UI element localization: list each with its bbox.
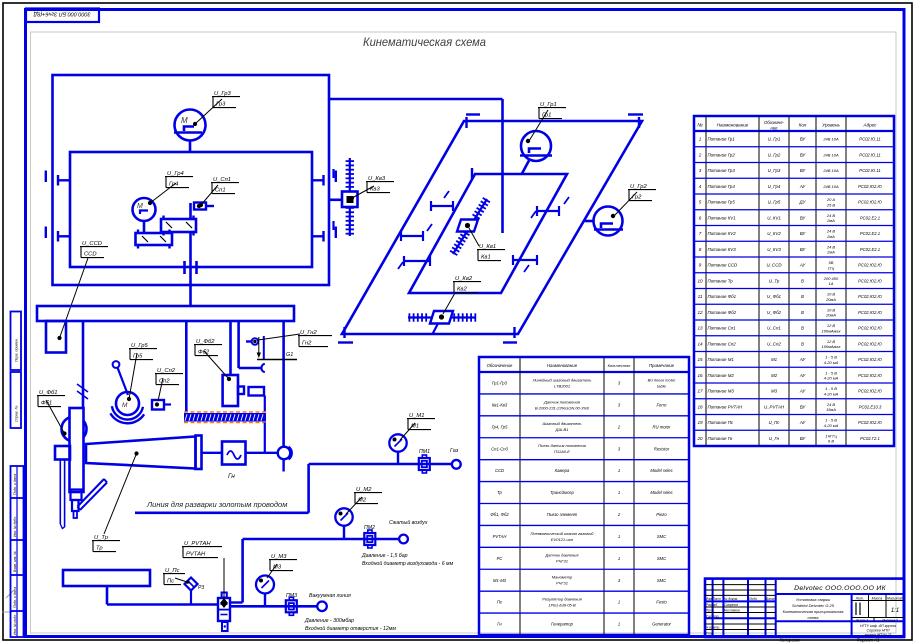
svg-text:РС02.Ю2.Ю: РС02.Ю2.Ю: [858, 263, 882, 268]
svg-text:ние: ние: [771, 126, 779, 131]
leadscrew Kv3: [349, 158, 351, 236]
sensor Sp2: [152, 400, 164, 410]
svg-text:Кинематическая схема: Кинематическая схема: [363, 35, 486, 49]
svg-text:В: В: [801, 326, 804, 331]
svg-text:19: 19: [697, 420, 703, 425]
gas inlet circle: [452, 460, 461, 469]
svg-text:24 В: 24 В: [826, 229, 836, 234]
svg-text:Копировал: Копировал: [780, 638, 801, 643]
svg-text:Изм Лист: Изм Лист: [706, 597, 721, 601]
svg-text:РС02.Ю2.Ю: РС02.Ю2.Ю: [858, 278, 882, 283]
leader to Gr3: [195, 99, 222, 124]
svg-text:SМС: SМС: [657, 578, 667, 583]
svg-text:24В 10А: 24В 10А: [822, 152, 839, 157]
svg-text:Питание Тр: Питание Тр: [708, 278, 734, 283]
svg-text:РС02.Ю2.Ю: РС02.Ю2.Ю: [858, 310, 882, 315]
svg-text:В: В: [801, 278, 804, 283]
svg-text:ПМ2: ПМ2: [364, 525, 375, 531]
svg-text:12 В: 12 В: [827, 323, 836, 328]
svg-text:Пьезо элемент: Пьезо элемент: [547, 512, 578, 517]
gauge M3: [264, 594, 266, 607]
gear block upper: [161, 219, 196, 232]
svg-text:Resistor: Resistor: [654, 446, 670, 451]
svg-text:1 - 5 В: 1 - 5 В: [825, 418, 837, 423]
svg-text:Листов 1: Листов 1: [881, 619, 898, 623]
top-left document number stamp: [26, 9, 99, 23]
svg-text:table: table: [657, 383, 666, 388]
svg-text:Количество: Количество: [608, 363, 632, 368]
column line 5: [282, 321, 285, 447]
svg-text:18: 18: [697, 404, 703, 409]
rail dashes Kv3: [332, 169, 334, 178]
column line 2: [185, 321, 188, 413]
svg-text:Питание М1: Питание М1: [708, 357, 735, 362]
column line 1: [82, 321, 85, 408]
svg-text:РС02.Е2.1: РС02.Е2.1: [860, 247, 880, 252]
svg-text:Генератор: Генератор: [551, 622, 573, 627]
bearing left upper: [45, 171, 47, 183]
leader to Kv3: [352, 186, 374, 198]
svg-text:Питание Гр4: Питание Гр4: [708, 184, 736, 189]
svg-text:6 В: 6 В: [828, 439, 834, 444]
bearing right lower: [335, 227, 337, 239]
svg-text:Schdelot Delvotec G.25: Schdelot Delvotec G.25: [792, 603, 835, 608]
svg-text:Установка сварки: Установка сварки: [796, 597, 831, 602]
svg-text:Festo: Festo: [656, 600, 667, 605]
wire G1: [257, 359, 297, 361]
motor Gr2: [594, 207, 623, 236]
svg-text:U_ССD: U_ССD: [766, 263, 782, 268]
capstan circle: [62, 417, 87, 442]
leadscrew Kv1 diagonal: [453, 199, 487, 254]
brake arc Gr5: [112, 406, 143, 419]
svg-text:РС02.Ю2.Ю: РС02.Ю2.Ю: [858, 200, 882, 205]
link to motor Gr5: [118, 368, 129, 396]
svg-text:РС02.Ю2.Ю: РС02.Ю2.Ю: [858, 326, 882, 331]
svg-text:Т.контр.: Т.контр.: [706, 615, 720, 619]
svg-text:ПМ1: ПМ1: [419, 449, 430, 455]
svg-text:1ЧГГц: 1ЧГГц: [825, 433, 837, 438]
svg-text:7: 7: [699, 231, 702, 236]
svg-text:Формат А1: Формат А1: [857, 638, 880, 643]
svg-text:25 В: 25 В: [826, 202, 836, 207]
svg-text:24 В: 24 В: [826, 244, 836, 249]
svg-text:Питание Гр2: Питание Гр2: [708, 152, 736, 157]
svg-text:Утв.: Утв.: [706, 632, 714, 636]
svg-text:Питание КV1: Питание КV1: [708, 215, 737, 220]
svg-text:1: 1: [618, 622, 620, 627]
svg-text:Питание Гр3: Питание Гр3: [708, 168, 736, 173]
svg-text:BU linear motor: BU linear motor: [648, 377, 676, 382]
svg-text:U_Гр5: U_Гр5: [768, 200, 781, 205]
svg-text:U_Сп2: U_Сп2: [767, 341, 781, 346]
svg-text:1 - 5 В: 1 - 5 В: [825, 386, 837, 391]
ultrasonic generator Gn: [222, 442, 246, 465]
svg-text:М3: М3: [771, 389, 778, 394]
svg-text:РС02.Ю2.Ю: РС02.Ю2.Ю: [858, 294, 882, 299]
line to M3: [230, 605, 317, 608]
svg-text:Питание Пс: Питание Пс: [708, 420, 734, 425]
svg-text:Датчик положения: Датчик положения: [543, 399, 581, 404]
svg-text:16: 16: [697, 373, 703, 378]
svg-text:Ferro: Ferro: [656, 402, 667, 407]
svg-text:Питание М2: Питание М2: [708, 373, 735, 378]
svg-text:U_Гр3: U_Гр3: [768, 168, 781, 173]
svg-text:Сергеев НПП: Сергеев НПП: [867, 629, 890, 633]
svg-text:М1-М3: М1-М3: [493, 578, 507, 583]
svg-text:1А: 1А: [829, 281, 834, 286]
shaft vertical: [189, 203, 192, 219]
svg-text:LТВ2001: LТВ2001: [554, 383, 570, 388]
wire box1 to stage top: [329, 98, 503, 101]
svg-text:РЧГ31: РЧГ31: [556, 559, 568, 564]
nut Kv3: [342, 192, 358, 208]
svg-text:Подп. и дата: Подп. и дата: [13, 474, 17, 495]
svg-text:8: 8: [699, 247, 702, 252]
pressure sensor Ps: [185, 578, 198, 591]
svg-text:Питание М3: Питание М3: [708, 389, 735, 394]
svg-text:20мА: 20мА: [825, 313, 836, 318]
svg-text:М1: М1: [771, 357, 778, 362]
transducer block Fb2: [223, 375, 238, 406]
svg-text:U_Фб1: U_Фб1: [767, 294, 782, 299]
svg-text:Уровень: Уровень: [822, 123, 840, 128]
svg-text:ДУ: ДУ: [799, 200, 807, 205]
svg-text:Питание ССD: Питание ССD: [708, 263, 739, 268]
bond head column: [70, 408, 84, 492]
svg-text:Масса: Масса: [872, 596, 883, 600]
svg-text:М: М: [122, 402, 128, 409]
line to M2: [243, 538, 399, 541]
svg-text:Пс: Пс: [167, 579, 174, 585]
svg-text:5: 5: [699, 200, 702, 205]
svg-text:Питание Сп2: Питание Сп2: [708, 341, 737, 346]
svg-text:U_Гр4: U_Гр4: [768, 184, 781, 189]
svg-text:Кол: Кол: [799, 123, 807, 128]
svg-text:Пневматический клапан газовый: Пневматический клапан газовый: [531, 531, 595, 536]
svg-text:1: 1: [618, 468, 620, 473]
svg-text:Гн: Гн: [228, 473, 235, 480]
svg-text:1: 1: [618, 556, 620, 561]
svg-text:РС: РС: [497, 556, 504, 561]
leader to CCD camera: [60, 258, 89, 338]
svg-text:М2: М2: [771, 373, 778, 378]
svg-text:U_Гр2: U_Гр2: [768, 152, 781, 157]
svg-text:П11А0-Е: П11А0-Е: [554, 449, 570, 454]
svg-text:РЧГ31: РЧГ31: [556, 581, 568, 586]
svg-text:Адрес: Адрес: [863, 123, 878, 128]
svg-text:М: М: [181, 116, 188, 125]
svg-text:24 В: 24 В: [826, 213, 836, 218]
lever arm: [80, 483, 107, 511]
CCD camera: [46, 321, 66, 353]
svg-text:Разраб.: Разраб.: [706, 603, 718, 607]
column line 3: [229, 321, 232, 375]
svg-text:Наименование: Наименование: [717, 123, 749, 128]
head lower blocks: [71, 490, 82, 501]
block right of Fb2: [249, 387, 265, 396]
svg-text:Давление - 300мбар: Давление - 300мбар: [304, 618, 354, 624]
svg-text:Тр: Тр: [96, 546, 103, 552]
svg-text:Шаговый двигатель: Шаговый двигатель: [543, 421, 582, 426]
svg-text:Питание Гр1: Питание Гр1: [708, 137, 736, 142]
svg-text:ЕV0121-шт: ЕV0121-шт: [551, 537, 574, 542]
slider rung D: [537, 210, 559, 212]
fold mark bottom left: [6, 590, 14, 598]
svg-text:4-20 мА: 4-20 мА: [824, 360, 839, 365]
svg-text:РС02.Ю2.Ю: РС02.Ю2.Ю: [858, 420, 882, 425]
slider rung B: [401, 235, 423, 237]
svg-text:17: 17: [697, 389, 703, 394]
svg-text:Кинематическая принципиальная: Кинематическая принципиальная: [783, 610, 844, 614]
svg-text:U_Гн: U_Гн: [769, 436, 780, 441]
svg-text:РС02.Ю.11: РС02.Ю.11: [859, 152, 880, 157]
svg-text:2мА: 2мА: [826, 218, 835, 223]
svg-text:Сп2: Сп2: [159, 379, 170, 385]
wire box1 to Kv3 screw: [329, 199, 342, 202]
EFO spark unit Gn: [246, 340, 252, 342]
svg-text:11: 11: [698, 294, 703, 299]
bearing right upper: [335, 171, 337, 183]
svg-text:Наименование: Наименование: [547, 363, 578, 368]
svg-text:Model selec: Model selec: [650, 468, 673, 473]
svg-text:Линия для разварки золотым про: Линия для разварки золотым проводом: [146, 500, 287, 509]
svg-text:Питание Гн: Питание Гн: [708, 436, 733, 441]
svg-text:Гн: Гн: [497, 622, 502, 627]
svg-text:Гр1-Гр3: Гр1-Гр3: [492, 381, 508, 386]
svg-text:12 В: 12 В: [827, 339, 836, 344]
svg-text:РС02.Ю2.Ю: РС02.Ю2.Ю: [858, 357, 882, 362]
svg-text:24 В: 24 В: [826, 402, 836, 407]
svg-text:Перв. примен.: Перв. примен.: [15, 338, 19, 362]
parts table: [479, 357, 689, 635]
svg-text:4-20 мА: 4-20 мА: [824, 376, 839, 381]
svg-text:Кв2: Кв2: [457, 287, 467, 293]
title block: [705, 579, 904, 637]
lit massa masshtab: [852, 600, 904, 602]
svg-text:Питание КV2: Питание КV2: [708, 231, 737, 236]
svg-text:15: 15: [697, 357, 703, 362]
svg-text:20: 20: [696, 436, 703, 441]
wire horn to generator: [202, 452, 223, 454]
svg-text:Чистяков: Чистяков: [724, 609, 740, 613]
svg-text:Трансдюсер: Трансдюсер: [550, 490, 574, 495]
svg-text:Piezo: Piezo: [656, 512, 667, 517]
svg-text:2: 2: [698, 152, 702, 157]
svg-text:G1: G1: [286, 352, 293, 358]
title block doc number: [776, 593, 904, 595]
svg-text:Дата: Дата: [765, 597, 775, 601]
svg-text:№: №: [697, 123, 703, 129]
svg-text:Лит.: Лит.: [855, 596, 864, 600]
riser to PYTAN valve: [241, 539, 244, 603]
svg-text:Пров.: Пров.: [706, 609, 715, 613]
svg-text:РVТАН: РVТАН: [493, 534, 508, 539]
svg-text:Кв1: Кв1: [481, 255, 491, 261]
svg-text:Лист 1: Лист 1: [855, 619, 868, 623]
bearing left lower: [45, 227, 47, 239]
svg-text:Сжатый воздух: Сжатый воздух: [389, 519, 428, 526]
heater strip: [184, 413, 266, 422]
svg-text:Обозначе-: Обозначе-: [764, 120, 785, 125]
svg-text:Входной диаметр воздуховода -: Входной диаметр воздуховода - 6 мм: [362, 560, 454, 567]
pivot circle: [113, 361, 120, 368]
svg-text:1РБ1-Е/В-05-В: 1РБ1-Е/В-05-В: [548, 603, 576, 608]
svg-text:10 В: 10 В: [827, 307, 836, 312]
svg-text:200 400: 200 400: [823, 276, 839, 281]
svg-text:U_Гр1: U_Гр1: [768, 137, 781, 142]
svg-text:схема: схема: [807, 615, 819, 620]
svg-text:Сп1: Сп1: [215, 188, 226, 194]
svg-text:U_Тр: U_Тр: [769, 278, 780, 283]
leader to Sp1: [201, 185, 218, 205]
column line 4 with coupler: [237, 321, 240, 368]
svg-text:РС02.Ю2.Ю: РС02.Ю2.Ю: [858, 341, 882, 346]
svg-text:U_КV3: U_КV3: [767, 247, 781, 252]
svg-text:ПМ3: ПМ3: [286, 593, 297, 599]
svg-text:Камера: Камера: [555, 468, 570, 473]
svg-text:10 В: 10 В: [827, 292, 836, 297]
svg-text:Питание Фб2: Питание Фб2: [708, 310, 737, 315]
svg-text:Model selec: Model selec: [650, 490, 673, 495]
svg-text:Манометр: Манометр: [552, 575, 573, 580]
svg-text:3000.000.БЛ Згч6+(8Д: 3000.000.БЛ Згч6+(8Д: [33, 11, 90, 17]
svg-text:Подп.: Подп.: [749, 597, 758, 601]
svg-text:1:1: 1:1: [891, 608, 899, 614]
svg-text:100мАмах: 100мАмах: [821, 344, 841, 349]
svg-text:В: В: [801, 294, 804, 299]
title block name cell: [776, 620, 904, 622]
svg-text:Обозначение: Обозначение: [487, 363, 513, 368]
svg-text:Пс: Пс: [497, 600, 503, 605]
svg-text:2мА: 2мА: [826, 250, 835, 255]
svg-text:НГТУ каф. АП группа: НГТУ каф. АП группа: [860, 624, 896, 628]
svg-text:Фб2: Фб2: [198, 350, 210, 356]
slider rung E: [513, 259, 537, 261]
svg-text:14: 14: [697, 341, 703, 346]
svg-text:РVТАН: РVТАН: [186, 552, 206, 558]
motor Gr5: [116, 392, 139, 415]
wire heater to horn line: [264, 423, 266, 453]
leader to Gr4: [150, 183, 176, 203]
svg-text:1: 1: [618, 600, 620, 605]
nut Kv2: [430, 311, 453, 324]
svg-text:Датчик давления: Датчик давления: [544, 553, 579, 558]
svg-text:Инв. № подл.: Инв. № подл.: [13, 614, 17, 635]
worm gear block lower: [136, 233, 173, 245]
valve PYTAN: [218, 598, 230, 621]
supply table rect: [63, 570, 150, 586]
svg-text:Гн2: Гн2: [302, 341, 312, 347]
svg-text:группа ИП1Н-21: группа ИП1Н-21: [864, 633, 891, 637]
svg-text:Питание Фб1: Питание Фб1: [708, 294, 737, 299]
svg-text:Линейный шаговый двигатель: Линейный шаговый двигатель: [532, 377, 592, 382]
margin box group lower: [11, 466, 24, 637]
stage outer frame: [342, 121, 642, 334]
vacuum inlet circle: [317, 602, 327, 612]
svg-text:9: 9: [699, 263, 702, 268]
svg-text:U_КV1: U_КV1: [767, 215, 781, 220]
svg-text:2мА: 2мА: [826, 234, 835, 239]
svg-text:РС02.Е2.1: РС02.Е2.1: [860, 215, 880, 220]
svg-text:Гр3: Гр3: [216, 102, 226, 108]
svg-text:Пьезо датчик положения: Пьезо датчик положения: [538, 443, 587, 448]
base bar: [37, 306, 294, 321]
margin box Perv. primen.: [11, 312, 22, 371]
svg-text:10: 10: [697, 278, 703, 283]
motor Gr3: [175, 110, 206, 141]
svg-text:Н.контр.: Н.контр.: [706, 626, 720, 630]
svg-text:Давление - 1,5 бар: Давление - 1,5 бар: [361, 553, 408, 559]
svg-text:РС02.Е10.3: РС02.Е10.3: [859, 404, 882, 409]
gauge M1: [397, 452, 399, 465]
svg-text:100мАмах: 100мАмах: [821, 328, 841, 333]
svg-text:Тр: Тр: [497, 490, 502, 495]
svg-text:4-20 мА: 4-20 мА: [824, 391, 839, 396]
svg-text:В-2000-231-23%GОN.00-3%0: В-2000-231-23%GОN.00-3%0: [535, 405, 590, 410]
housing box2 inner: [70, 152, 312, 267]
svg-text:24В 10А: 24В 10А: [822, 137, 839, 142]
svg-text:Вакуумная линия: Вакуумная линия: [309, 593, 351, 599]
shaft bushing bars: [183, 261, 186, 274]
wire generator to connector: [246, 452, 278, 454]
svg-text:Питание Гр5: Питание Гр5: [708, 200, 736, 205]
svg-text:Delvotec ООО.ООО.ОО ИК: Delvotec ООО.ООО.ОО ИК: [794, 585, 886, 592]
svg-text:RU motor: RU motor: [653, 424, 672, 429]
stage rail dashes bottom: [338, 341, 353, 343]
svg-text:13: 13: [697, 326, 703, 331]
motor Gr1: [521, 131, 551, 161]
svg-text:Р3: Р3: [198, 585, 204, 591]
margin box Sprav. No: [11, 372, 22, 428]
svg-text:РС02.Ю2.Ю: РС02.Ю2.Ю: [858, 184, 882, 189]
svg-text:Generator: Generator: [652, 622, 671, 627]
svg-text:3: 3: [699, 168, 702, 173]
valve PM2: [364, 533, 375, 545]
svg-text:РС02.Ю.11: РС02.Ю.11: [859, 168, 880, 173]
svg-text:Примечание: Примечание: [649, 363, 675, 368]
svg-text:Питание КV3: Питание КV3: [708, 247, 737, 252]
stage rail dashes top: [466, 113, 480, 115]
leadscrew Kv2 horizontal: [408, 316, 476, 318]
svg-text:12: 12: [697, 310, 703, 315]
svg-text:U_РVТАН: U_РVТАН: [764, 404, 785, 409]
svg-text:6: 6: [699, 215, 702, 220]
svg-text:М: М: [137, 203, 143, 210]
svg-text:Газ: Газ: [450, 448, 459, 454]
svg-text:РС02.Е2.1: РС02.Е2.1: [860, 231, 880, 236]
ultrasonic horn: [86, 437, 196, 469]
svg-text:SМС: SМС: [657, 534, 667, 539]
svg-text:24В 10А: 24В 10А: [822, 184, 839, 189]
svg-text:РС02.Г2.1: РС02.Г2.1: [860, 436, 880, 441]
svg-text:Регулятор давления: Регулятор давления: [542, 597, 582, 602]
svg-text:1Гц: 1Гц: [828, 265, 835, 270]
nut Kv1: [457, 220, 478, 232]
svg-text:Фб1, Фб2: Фб1, Фб2: [490, 512, 509, 517]
svg-text:20 А: 20 А: [826, 197, 836, 202]
pneumatic main line: [135, 511, 309, 514]
gauge M2: [343, 526, 345, 540]
svg-text:Гр4, Гр5: Гр4, Гр5: [492, 424, 509, 429]
svg-text:В: В: [801, 310, 804, 315]
slider rung C: [404, 260, 430, 262]
svg-text:SМС: SМС: [657, 556, 667, 561]
svg-text:U_КV2: U_КV2: [767, 231, 781, 236]
svg-text:U_Сп1: U_Сп1: [767, 326, 781, 331]
svg-text:ССD: ССD: [495, 468, 504, 473]
svg-text:РС02.Ю2.Ю: РС02.Ю2.Ю: [858, 373, 882, 378]
